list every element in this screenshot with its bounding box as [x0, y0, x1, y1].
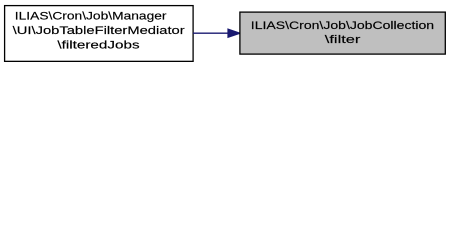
svg-text:ILIAS\Cron\Job\Manager: ILIAS\Cron\Job\Manager [15, 11, 167, 23]
call graph diagram [0, 0, 449, 67]
svg-text:\filter: \filter [325, 34, 361, 46]
svg-text:\UI\JobTableFilterMediator: \UI\JobTableFilterMediator [13, 25, 186, 37]
node box: ILIAS\Cron\Job\Manager\UI\JobTableFilterMediator\filteredJobs [5, 6, 194, 62]
node box (current, grey): ILIAS\Cron\Job\JobCollection\filter [240, 12, 445, 54]
svg-text:\filteredJobs: \filteredJobs [57, 39, 139, 51]
edge wire: caller to callee [193, 32, 229, 34]
edge arrowhead [228, 29, 240, 37]
svg-text:ILIAS\Cron\Job\JobCollection: ILIAS\Cron\Job\JobCollection [251, 20, 434, 32]
